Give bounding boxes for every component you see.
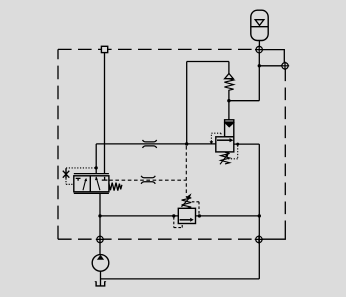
wire: bottom return line: [101, 278, 260, 280]
directional valve W1 body: [74, 176, 109, 192]
valve A left pilot line (dotted): [211, 133, 221, 141]
wire: branch to right port: [259, 65, 282, 67]
orifice B1 on main line: [143, 140, 157, 148]
directional valve W1 pilot dotted line from X top: [66, 167, 96, 169]
directional valve W1 bottom rail: [74, 192, 109, 194]
pilot line from directional valve to valve B (dashed): [109, 179, 186, 181]
valve A main body: [216, 137, 234, 152]
directional valve W1 return spring: [109, 183, 122, 191]
accumulator Z1 body: [251, 10, 268, 40]
wire: top-right solid corner from accumulator tee to port: [263, 50, 285, 63]
wire: horizontal to check-valve column: [229, 100, 259, 102]
wire: check valve column upper: [228, 62, 230, 74]
enclosure frame bottom edge (dashed): [58, 238, 256, 240]
relief valve B adjustment arrow: [182, 200, 189, 207]
port: circle-cross return on frame bottom: [255, 235, 263, 243]
node: valve B right pilot tap: [198, 214, 201, 217]
node: valve B branch on pump riser: [98, 214, 101, 217]
valve A spring below: [221, 152, 230, 164]
directional valve W1 left cell blocked port T: [76, 178, 81, 180]
port: circle-cross above pump on frame bottom: [96, 235, 104, 243]
relief valve B internal arrow: [180, 219, 191, 221]
node: check column junction: [227, 99, 230, 102]
node: bypass tap dot: [185, 142, 188, 145]
accumulator Z1 gas triangle: [255, 20, 264, 26]
valve A left pilot arrowhead: [210, 141, 214, 144]
relief valve B spring on top: [182, 197, 192, 209]
node: pilot tap on riser: [95, 166, 98, 169]
port: square connection on frame top: [101, 46, 107, 52]
enclosure frame top edge (dashed): [58, 48, 256, 50]
valve A check stage body: [225, 120, 234, 137]
enclosure frame right edge (dashed): [284, 69, 286, 230]
valve A adjustment arrow: [220, 156, 227, 164]
pump P1 flow triangle: [97, 255, 104, 260]
tank T1 symbol: [95, 281, 105, 286]
check valve V1 seat triangle: [225, 74, 234, 79]
wire: riser valve A-port to directional valve: [95, 144, 97, 174]
accumulator Z1 midline: [251, 26, 268, 28]
port: circle-cross on frame right edge: [281, 62, 289, 70]
directional valve W1 pilot dotted line from X bottom: [66, 178, 74, 184]
relief valve B right pilot (dashed): [192, 202, 199, 214]
wire: right return column: [258, 144, 260, 279]
enclosure frame bottom-right solid corner: [262, 229, 285, 239]
wire: riser from square port to directional valve: [104, 53, 106, 174]
orifice B2 on pilot line: [141, 176, 155, 184]
wire: main line to pressure valve A: [96, 143, 216, 145]
directional valve W1 top rail: [74, 173, 109, 175]
pump P1 circle: [92, 255, 109, 272]
wire: bypass loop top: [187, 61, 229, 63]
valve A check stage triangle: [225, 123, 233, 127]
directional valve W1 right cell blocked port T: [102, 177, 108, 180]
check valve V1 spring: [224, 79, 233, 91]
directional valve W1 left cell arrow: [83, 181, 86, 191]
relief valve B left pilot (dashed): [174, 217, 182, 228]
wire: bypass loop left vertical: [186, 62, 188, 145]
wire: check valve column lower: [228, 90, 230, 120]
wire: accumulator drop line: [258, 53, 260, 101]
wire: valve A outlet to right column: [234, 143, 259, 145]
directional valve W1 right cell passage: [96, 177, 100, 190]
node: valve B left pilot tap: [172, 214, 175, 217]
relief valve B body: [178, 208, 195, 223]
port: circle-cross accumulator on frame top: [255, 45, 263, 53]
pilot drop line to valve B spring (dashed): [185, 146, 187, 195]
valve A right pilot line (dotted): [227, 146, 238, 159]
wire: pump to tank drop: [100, 271, 102, 285]
valve A check stage seat bar: [225, 121, 234, 123]
wire: valve B right line: [196, 215, 260, 217]
node: valve B tee on return column: [258, 214, 261, 217]
directional valve W1 divider: [89, 176, 91, 192]
wire: pump riser: [99, 193, 101, 254]
wire: valve B left line: [100, 215, 178, 217]
valve A internal arrow: [217, 139, 230, 141]
node: valve A right pilot tap: [236, 143, 239, 146]
node: branch dot: [258, 64, 261, 67]
directional valve W1 pilot port X symbol: [63, 168, 70, 178]
enclosure frame left edge (dashed): [57, 49, 59, 239]
wire: accumulator stem: [258, 41, 260, 47]
